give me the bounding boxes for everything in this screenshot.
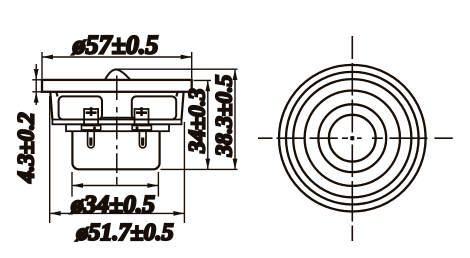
dimension 4.3	[32, 64, 42, 105]
center dot front view	[350, 136, 354, 140]
pin left	[88, 131, 95, 148]
pin right	[139, 131, 146, 148]
cavity right	[132, 96, 176, 119]
basket wall left	[50, 92, 57, 120]
centerline vertical front view	[351, 36, 353, 241]
cavity left	[59, 96, 102, 119]
dimension 34	[194, 80, 212, 169]
centerline horizontal front view	[258, 137, 453, 139]
svg-text:ø34±0.5: ø34±0.5	[70, 190, 155, 219]
centerline left view	[116, 76, 118, 185]
terminal bar left	[82, 125, 101, 129]
front view circles	[279, 65, 426, 212]
terminal block right	[135, 107, 149, 125]
terminal bar right	[132, 125, 151, 129]
plate A	[52, 120, 181, 125]
dimension ø57	[42, 52, 192, 79]
svg-text:ø51.7±0.5: ø51.7±0.5	[75, 220, 173, 246]
spider line	[101, 117, 133, 119]
svg-text:4.3±0.2: 4.3±0.2	[14, 112, 39, 183]
svg-text:34±0.3: 34±0.3	[185, 88, 210, 153]
terminal block left	[84, 107, 98, 125]
flange	[42, 80, 192, 92]
svg-text:ø57±0.5: ø57±0.5	[72, 31, 159, 60]
svg-text:38.3±0.5: 38.3±0.5	[212, 75, 237, 158]
dimension 38.3	[116, 69, 238, 169]
dimension ø34	[72, 172, 158, 197]
plate B	[66, 124, 169, 131]
magnet	[72, 131, 159, 169]
basket wall right	[176, 92, 183, 120]
dome	[105, 69, 130, 80]
dimension ø51.7	[50, 96, 185, 223]
